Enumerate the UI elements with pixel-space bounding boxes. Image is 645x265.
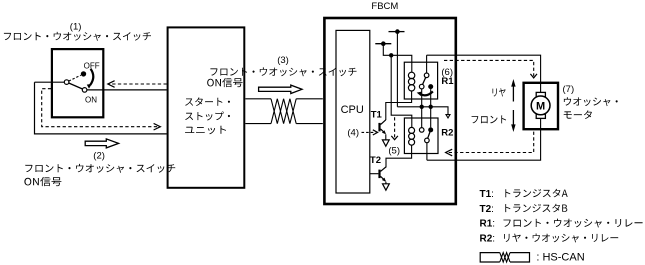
wire R1 common up to motor feed [426,55,428,73]
relay R1 NC terminal [419,84,424,89]
ground T2 [383,184,390,190]
label (3) ON signal [207,78,242,87]
HS-CAN bus bottom rail [245,123,322,125]
switch pivot terminal [64,80,69,85]
wire T1 emitter to ground [385,134,387,140]
switch motion curved arrow [87,69,94,89]
relay R1 contact arm [423,77,426,84]
svg-text:(2): (2) [93,150,105,161]
power feed B+ node 1 [389,29,405,34]
junction node R1-NO / R2 [429,105,433,109]
junction node power 2 branch [389,53,393,57]
junction node R1-NC / R2 [420,105,424,109]
svg-text:ON: ON [85,95,97,104]
wire motor return to R2 common [427,118,541,161]
svg-text:T2:: T2: [480,204,494,215]
svg-text:R1:: R1: [480,219,496,230]
power feed B+ node 2 [375,41,391,46]
svg-text:R2: R2 [441,128,453,139]
label front (furonto) [472,115,507,123]
CPU U1 box [336,30,370,193]
HS-CAN bus top rail [245,98,322,100]
label washer [564,97,618,106]
wire R1 NO down to node [430,89,432,107]
switch SW1 box [52,49,103,117]
switch arm previous position (dashed to OFF) [69,75,81,81]
svg-text:R2:: R2: [480,234,496,245]
relay R1 common terminal [424,73,429,78]
relay R2 NO terminal dot [428,127,433,132]
svg-text:: HS-CAN: : HS-CAN [533,251,584,263]
label start [185,97,230,106]
motor M symbol [531,96,550,115]
switch arm (to ON) [69,83,83,89]
wire node to R2 NO [430,107,432,128]
label (2) front washer switch [25,164,175,173]
wire left loop down and to start-stop unit [35,82,167,134]
svg-text:(4): (4) [347,127,359,138]
wire R2 common to motor return [426,143,428,161]
wire contact node horizontal [397,106,430,108]
label (3) front washer switch [210,67,356,76]
relay R1 switching curved arrow [417,91,433,96]
wire power 1 down to contact node [396,32,398,107]
FBCM box [324,18,455,204]
svg-text:FBCM: FBCM [371,1,398,12]
block arrow (2) [85,139,118,148]
dashed arrow (5) relay drive [391,117,398,140]
relay R2 coil [409,127,415,145]
label (2) ON signal [24,177,61,186]
wire T2 emitter to ground [385,182,387,184]
HS-CAN twisted pair zigzag [271,99,296,124]
relay R1 coil [408,72,414,91]
svg-text:(7): (7) [563,84,575,95]
ground T1 [382,140,389,146]
wire pivot to left [35,81,65,83]
svg-text:R1: R1 [441,76,454,87]
relay R1 box [404,62,437,99]
svg-text:T1: T1 [371,109,383,120]
legend HS-CAN symbol [480,253,529,262]
legend T2 text transistor B [505,204,567,213]
transistor Q1 (T1) [380,120,386,135]
wire R2 coil to T2 collector [386,145,412,167]
dashed flow arrow FBCM to motor [444,60,537,78]
motor terminal top [536,92,545,96]
svg-text:(3): (3) [277,55,289,66]
label motor [564,110,592,119]
label unit [185,126,226,134]
legend R1 text front washer relay [504,219,643,228]
relay R2 contact arm [428,132,430,138]
ground (stub) [446,115,450,118]
svg-text:CPU: CPU [341,104,364,116]
wire node to R2 NC [421,107,423,128]
label stop [185,112,230,121]
wire R1 NC down to node [421,89,423,107]
wire CPU to T2 base [370,173,378,175]
wire to ground stub [431,107,448,115]
svg-text:T2: T2 [370,155,381,166]
svg-text:T1:: T1: [480,189,494,200]
svg-text:(1): (1) [70,21,82,32]
legend R2 text rear washer relay [504,234,618,243]
legend T1 text transistor A [505,189,567,198]
wire R1 coil to T1 collector [386,91,412,120]
svg-text:M: M [536,100,545,112]
relay R2 common terminal [425,138,430,143]
wire power 2 to R1 coil [383,44,412,72]
label rear (riya) [493,88,506,96]
switch OFF contact dot [81,71,86,76]
relay R2 box [404,118,438,154]
dashed arrow (4) CPU to T1 base [362,130,378,135]
block arrow (3) [259,85,302,93]
switch ON terminal [82,88,87,93]
wire R1 common to motor (front feed) [427,55,541,92]
relay R2 NC terminal [419,128,424,133]
arrow front direction [511,110,515,132]
relay R1 NO terminal dot [428,84,433,89]
arrow rear direction [511,79,515,102]
dashed signal path (2) loop [42,89,161,130]
label front washer switch title [4,32,151,41]
start-stop unit box [168,27,245,187]
wire ON terminal to start-stop unit [87,89,167,91]
transistor Q2 (T2) [380,167,387,182]
dashed flow arrow motor to FBCM [446,132,534,156]
washer motor M1 box [524,83,558,129]
dashed signal arrow unit to switch [108,81,167,88]
wire power branch to R2 coil [391,55,412,127]
motor terminal bottom [536,114,545,118]
svg-text:(5): (5) [388,146,400,157]
